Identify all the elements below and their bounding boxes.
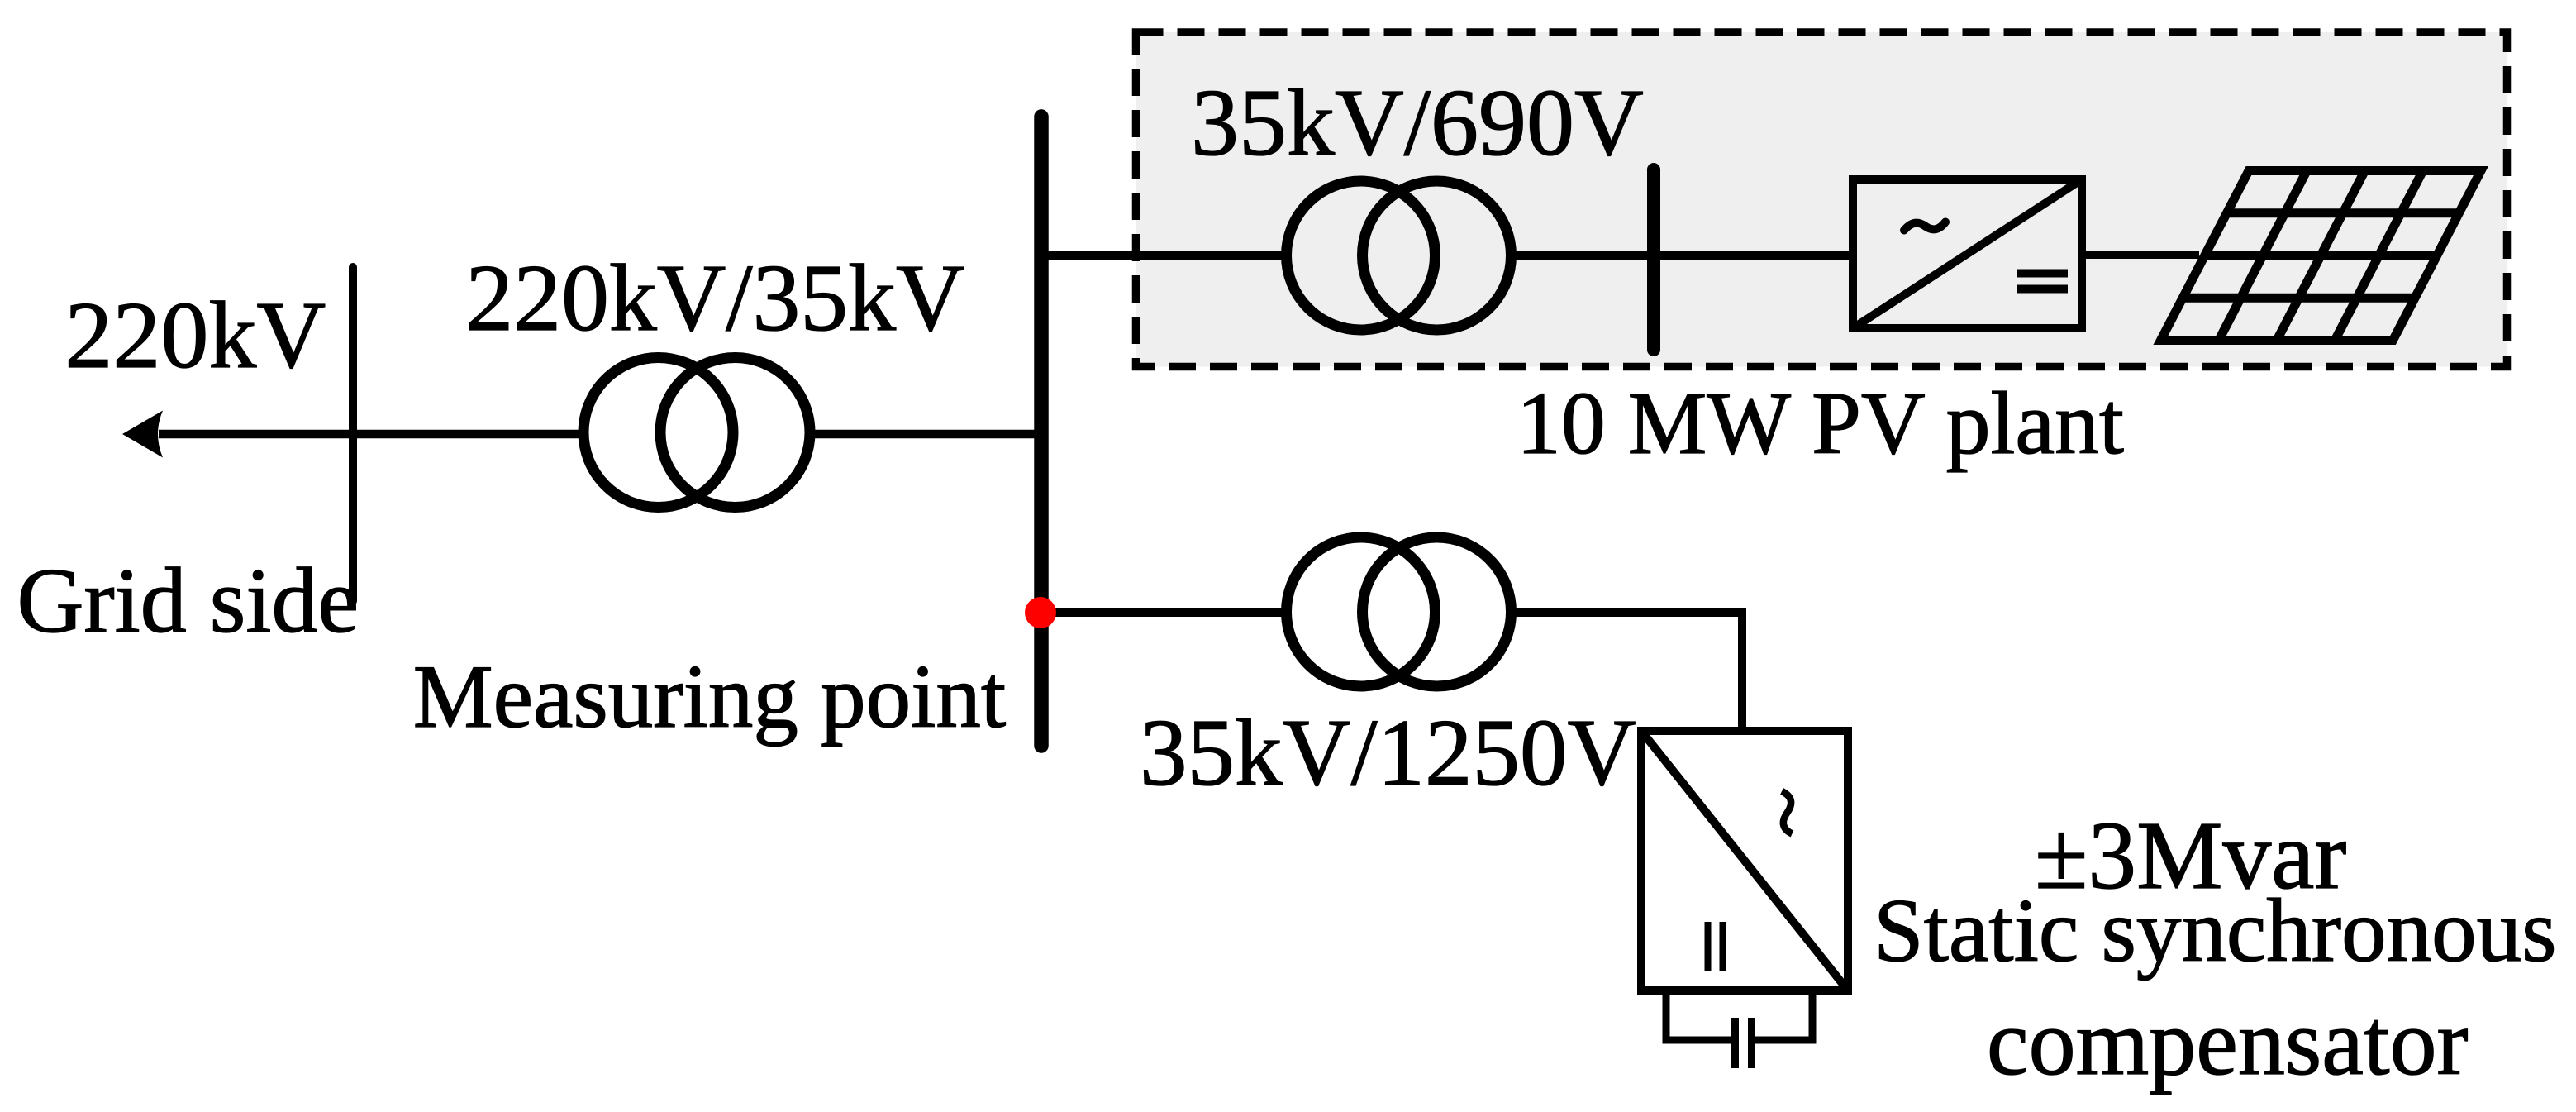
svg-text:35kV/1250V: 35kV/1250V — [1140, 700, 1636, 805]
wire PV busbar to inverter — [1658, 251, 1853, 260]
wire main bus to T2 — [1041, 251, 1283, 260]
wire T1 to main bus — [814, 430, 1041, 439]
PV collector busbar — [1647, 169, 1660, 350]
wire T3 to STATCOM converter — [1516, 613, 1742, 731]
measuring point node (red) — [1025, 597, 1056, 628]
svg-text:35kV/690V: 35kV/690V — [1191, 70, 1644, 176]
PV plant dashed enclosure — [1136, 32, 2507, 367]
svg-text:10 MW PV plant: 10 MW PV plant — [1517, 375, 2124, 473]
svg-text:Measuring point: Measuring point — [413, 647, 1006, 747]
inverter U1 diagonal — [1853, 179, 2082, 328]
STATCOM converter box — [1641, 731, 1848, 990]
wire inverter to PV array — [2082, 251, 2199, 259]
wire: grid export line — [159, 430, 579, 439]
transformer T2 35kV/690V — [1287, 181, 1436, 330]
STATCOM AC tilde (vertical) — [1782, 791, 1793, 834]
svg-text:220kV/35kV: 220kV/35kV — [465, 246, 964, 351]
grid-side busbar — [349, 267, 357, 601]
main 35kV busbar — [1034, 117, 1049, 746]
DC-link capacitor C1 plates — [1731, 1018, 1739, 1068]
DC-link capacitor C1 leads — [1666, 990, 1731, 1040]
inverter U1 DC equals sign — [2017, 270, 2068, 278]
PV array panel — [2161, 171, 2482, 341]
arrowhead to 220kV grid — [122, 411, 163, 458]
STATCOM DC symbol — [1705, 922, 1712, 971]
svg-text:compensator: compensator — [1987, 990, 2468, 1095]
svg-text:220kV: 220kV — [64, 283, 326, 389]
inverter U1 AC tilde — [1904, 222, 1945, 231]
transformer T3 35kV/1250V — [1287, 537, 1436, 686]
transformer T1 220kV/35kV — [583, 358, 733, 508]
wire T2 to PV collector busbar — [1516, 251, 1650, 260]
PV inverter U1 — [1853, 179, 2082, 328]
STATCOM diagonal — [1641, 731, 1848, 990]
wire main bus to T3 — [1041, 608, 1283, 617]
svg-text:Static synchronous: Static synchronous — [1874, 881, 2557, 981]
svg-text:Grid side: Grid side — [17, 550, 359, 652]
